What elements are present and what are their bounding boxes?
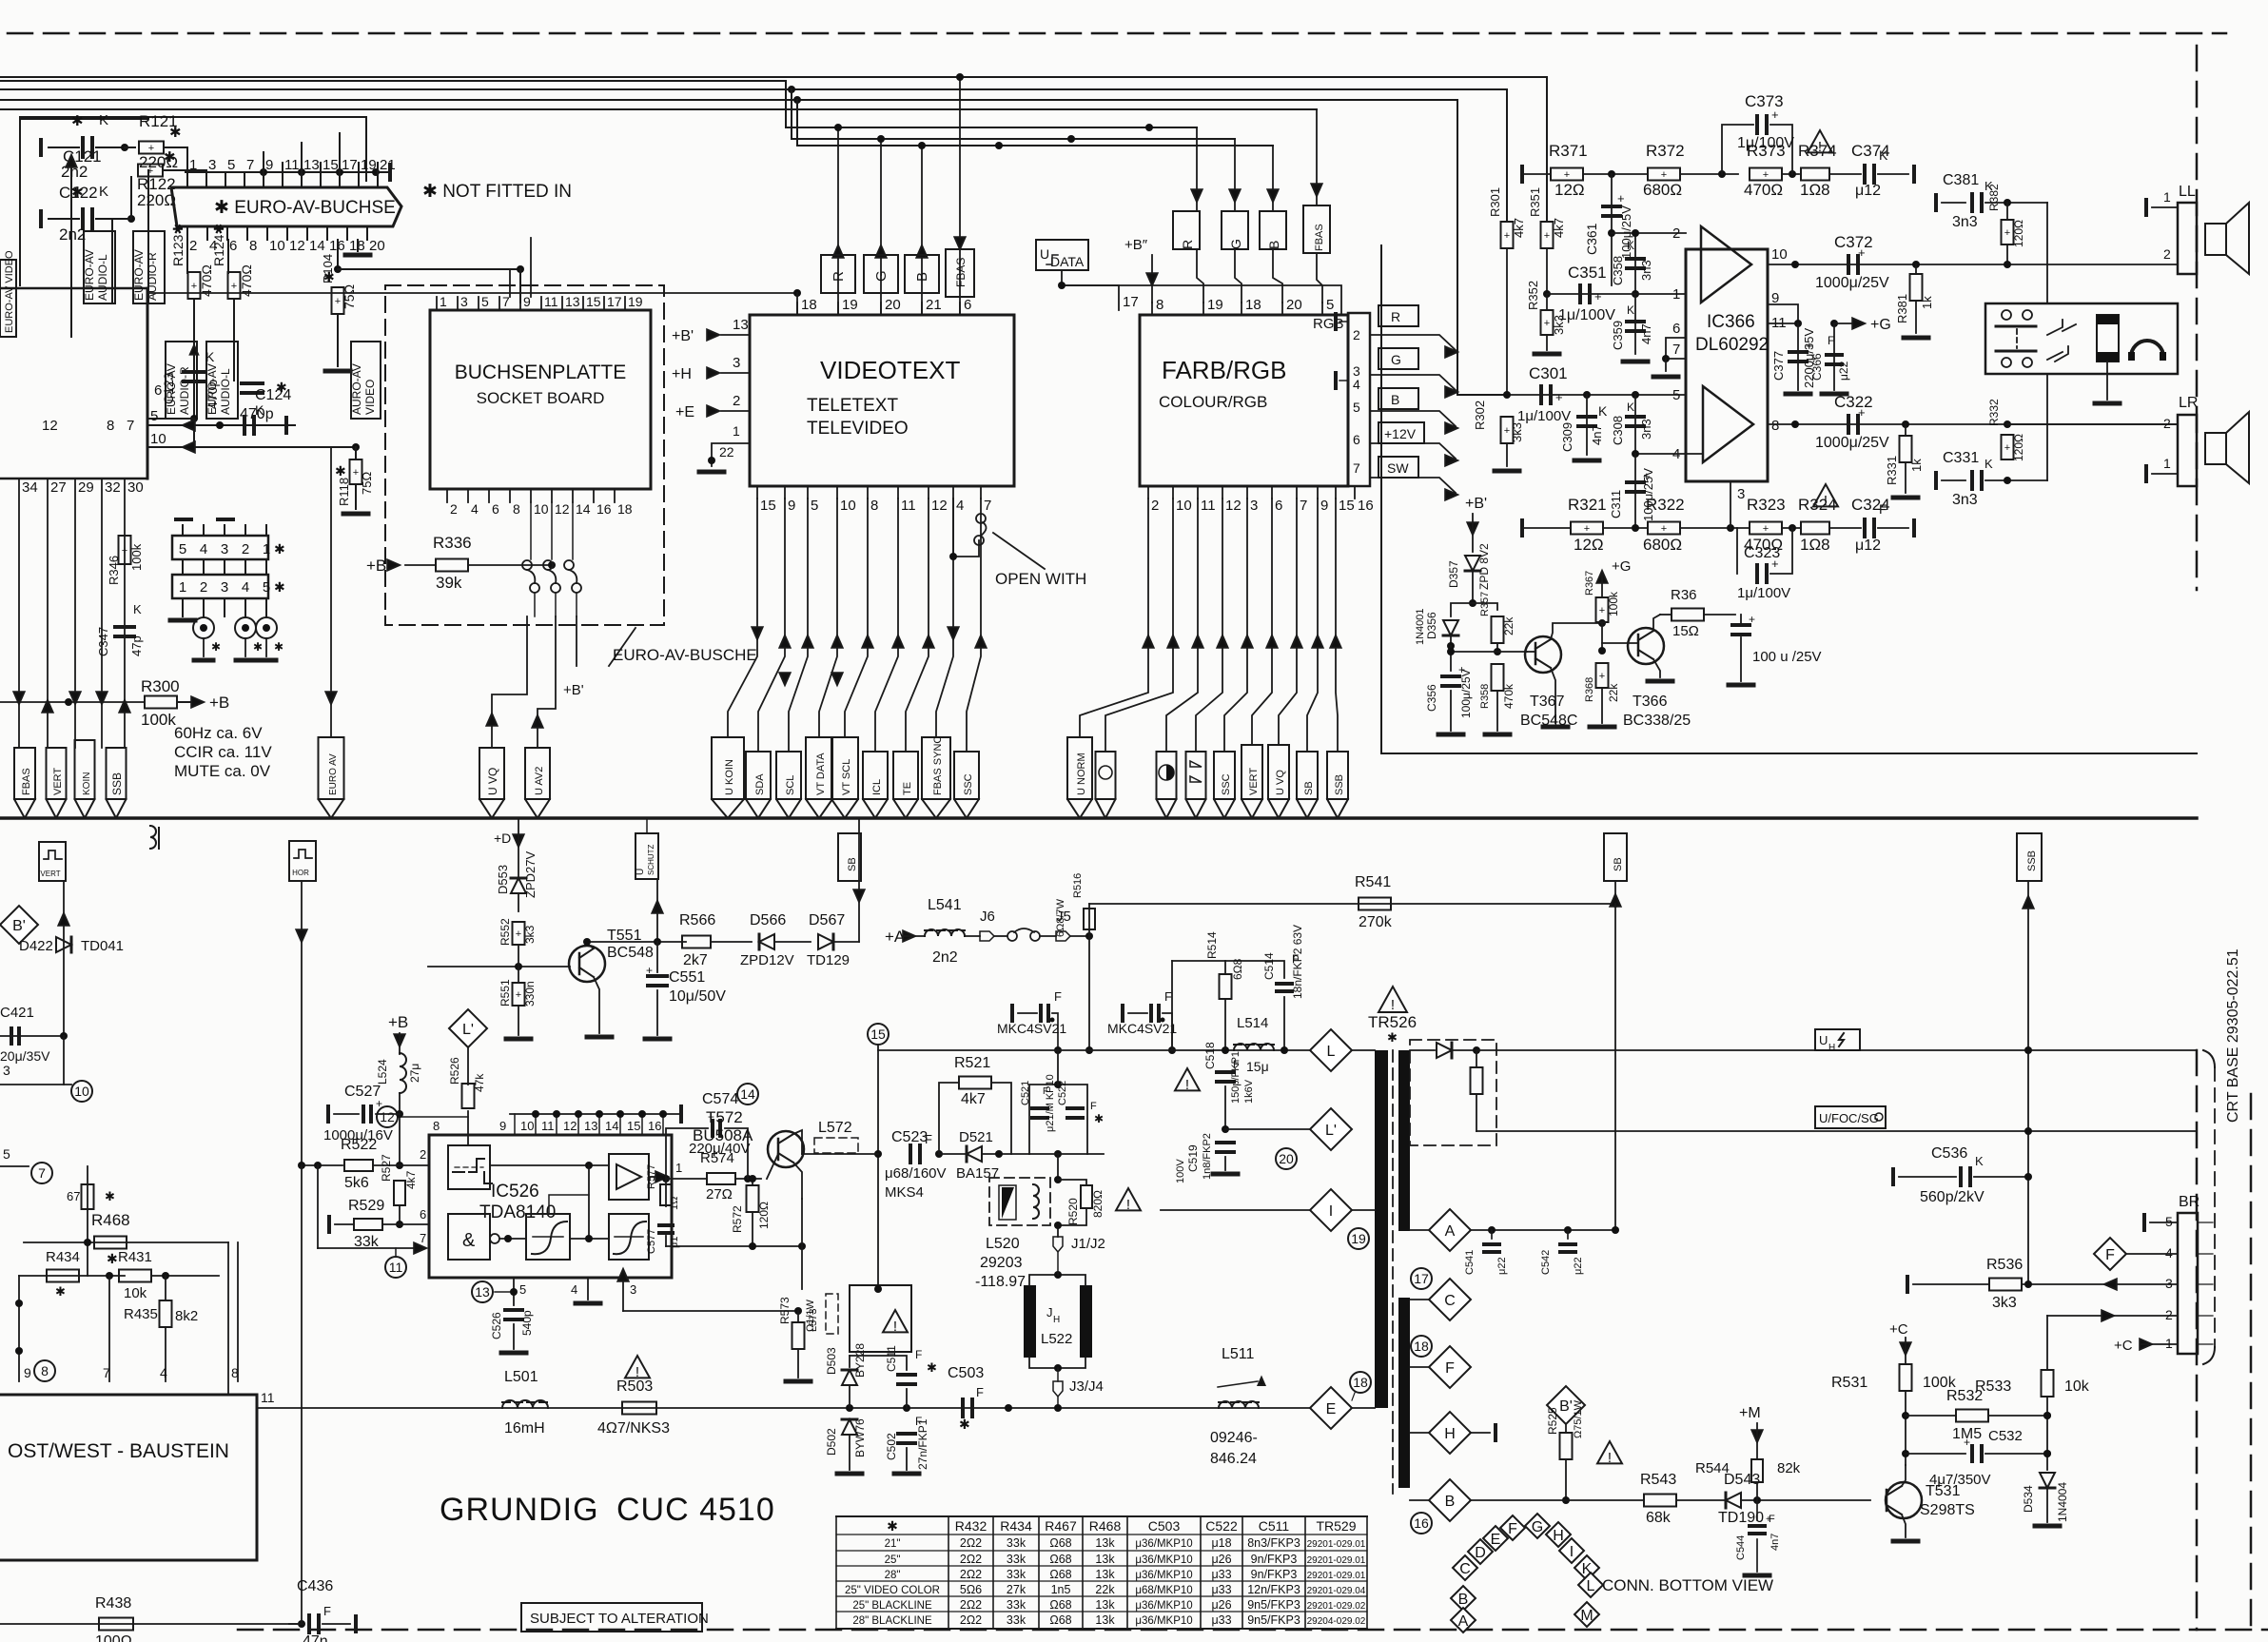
- capacitor C372: [1847, 256, 1850, 273]
- svg-text:DATA: DATA: [1050, 254, 1085, 269]
- svg-text:B: B: [914, 272, 930, 282]
- svg-text:EURO-AV: EURO-AV: [83, 249, 96, 301]
- label SUBJECT TO ALTERATION: [521, 1603, 702, 1632]
- node circle 12: [377, 1106, 398, 1127]
- wire lower block join: [147, 419, 194, 447]
- svg-text:μ26: μ26: [1211, 1598, 1231, 1612]
- capacitor 100u: [1732, 623, 1750, 627]
- svg-text:TELETEXT: TELETEXT: [807, 396, 898, 416]
- svg-text:9n5/FKP3: 9n5/FKP3: [1247, 1598, 1300, 1612]
- node flag FBAS SYNC: [14, 748, 35, 799]
- svg-text:R434: R434: [46, 1249, 80, 1265]
- resistor R124: [227, 240, 229, 273]
- node diamond L: [1310, 1029, 1352, 1071]
- resistor R301: [1501, 222, 1514, 248]
- svg-text:LL: LL: [2179, 184, 2196, 200]
- resistor R368: [1596, 663, 1609, 688]
- wire pin2 line: [1612, 232, 1686, 234]
- wire I line: [1161, 1209, 1310, 1211]
- svg-text:470k: 470k: [1502, 683, 1515, 709]
- svg-text:TELEVIDEO: TELEVIDEO: [807, 419, 909, 439]
- resistor R346: [119, 536, 131, 564]
- resistor R336: [387, 559, 400, 570]
- svg-text:K: K: [1975, 1154, 1984, 1168]
- wire flag riser: [728, 498, 757, 737]
- wire collector row: [587, 941, 686, 943]
- node flag B out: [1378, 388, 1418, 409]
- svg-text:27n/FKP1: 27n/FKP1: [916, 1418, 929, 1470]
- svg-text:2: 2: [1151, 498, 1159, 514]
- frame dashed border bottom: [238, 1629, 2268, 1632]
- svg-text:R531: R531: [1831, 1375, 1867, 1391]
- node flag U AV2: [525, 748, 550, 799]
- capacitor C301: [1539, 386, 1543, 403]
- inductor L520 assembly: [989, 1178, 1050, 1225]
- svg-text:BC338/25: BC338/25: [1623, 713, 1691, 729]
- small box below t572: [850, 1285, 911, 1352]
- sub-block s-curve 1: [526, 1214, 570, 1260]
- svg-text:25" VIDEO COLOR: 25" VIDEO COLOR: [845, 1585, 940, 1596]
- svg-text:27: 27: [50, 479, 67, 496]
- svg-text:FBAS: FBAS: [954, 258, 968, 287]
- sub-block driver triangle: [609, 1154, 649, 1200]
- svg-text:2: 2: [420, 1147, 426, 1162]
- wire top-left: [20, 116, 366, 118]
- resistor R503: [625, 1356, 650, 1378]
- svg-text:R372: R372: [1646, 142, 1685, 160]
- svg-text:100 u /25V: 100 u /25V: [1752, 649, 1822, 665]
- svg-text:1: 1: [675, 1161, 682, 1175]
- svg-text:1: 1: [263, 541, 270, 557]
- wire flag riser: [936, 498, 953, 737]
- svg-text:14: 14: [740, 1086, 755, 1102]
- svg-text:SOCKET BOARD: SOCKET BOARD: [477, 389, 605, 407]
- svg-text:5: 5: [519, 1282, 526, 1297]
- svg-text:13k: 13k: [1095, 1553, 1115, 1566]
- svg-text:F: F: [1828, 334, 1834, 347]
- svg-text:20: 20: [1279, 1151, 1294, 1166]
- svg-text:U: U: [1819, 1033, 1828, 1047]
- svg-text:2: 2: [1353, 327, 1360, 342]
- svg-text:19: 19: [842, 297, 858, 313]
- wire E line left: [257, 1407, 1310, 1409]
- node flag U FOC/SG: [1815, 1106, 1886, 1128]
- svg-text:14: 14: [605, 1119, 618, 1133]
- svg-text:5: 5: [1353, 400, 1360, 415]
- resistor R468: [24, 1241, 228, 1243]
- wire H tap: [1410, 1432, 1429, 1434]
- svg-text:680Ω: 680Ω: [1643, 536, 1682, 554]
- svg-text:D553: D553: [496, 865, 510, 894]
- svg-text:Ω68: Ω68: [1049, 1613, 1071, 1627]
- svg-text:T572: T572: [706, 1108, 743, 1126]
- node flag sun icon: [1096, 752, 1116, 799]
- svg-text:R36: R36: [1671, 587, 1697, 603]
- svg-text:1000μ/25V: 1000μ/25V: [1815, 275, 1889, 291]
- resistor R104: [337, 240, 339, 269]
- svg-text:TR526: TR526: [1368, 1013, 1417, 1031]
- svg-text:2Ω2: 2Ω2: [960, 1536, 982, 1550]
- pins videotext top: [796, 303, 798, 315]
- svg-text:+E: +E: [675, 404, 694, 420]
- svg-text:U: U: [1040, 246, 1049, 262]
- node flag SDA: [746, 752, 771, 799]
- svg-text:15: 15: [1339, 498, 1355, 514]
- svg-text:11: 11: [901, 498, 916, 514]
- wire r541 line: [1089, 903, 1615, 905]
- svg-text:μ33: μ33: [1211, 1583, 1231, 1596]
- svg-text:R529: R529: [348, 1198, 384, 1214]
- svg-text:B: B: [1458, 1592, 1469, 1608]
- resistor R533: [2046, 1316, 2048, 1370]
- svg-text:L511: L511: [1222, 1346, 1255, 1362]
- svg-text:R432: R432: [955, 1518, 987, 1534]
- svg-text:OPEN WITH: OPEN WITH: [995, 570, 1086, 588]
- node flag FBAS SYNC: [922, 737, 950, 799]
- svg-text:SUBJECT TO ALTERATION: SUBJECT TO ALTERATION: [530, 1611, 709, 1627]
- capacitor C511: [850, 1356, 907, 1370]
- svg-text:R382: R382: [1987, 184, 2001, 211]
- dashed box socket board: [385, 285, 664, 625]
- svg-text:K: K: [1627, 239, 1634, 252]
- svg-text:8n3/FKP3: 8n3/FKP3: [1247, 1536, 1300, 1550]
- svg-text:1k: 1k: [1909, 459, 1924, 472]
- diode D543: [1726, 1493, 1741, 1508]
- svg-text:28": 28": [885, 1570, 901, 1581]
- svg-text:!: !: [1185, 1077, 1189, 1093]
- node circle 14: [737, 1084, 758, 1104]
- svg-text:HOR: HOR: [292, 869, 309, 877]
- svg-text:7: 7: [127, 418, 134, 434]
- svg-text:OST/WEST - BAUSTEIN: OST/WEST - BAUSTEIN: [8, 1440, 229, 1462]
- svg-text:220Ω: 220Ω: [137, 191, 176, 209]
- svg-text:C541: C541: [1464, 1250, 1476, 1275]
- svg-text:21: 21: [380, 157, 396, 173]
- node flag TE: [893, 752, 918, 799]
- svg-text:4: 4: [2165, 1245, 2173, 1261]
- svg-text:29201-029.01: 29201-029.01: [1307, 1539, 1366, 1550]
- svg-text:C511: C511: [1259, 1518, 1290, 1534]
- svg-text:19: 19: [1207, 297, 1223, 313]
- svg-text:22k: 22k: [1502, 616, 1515, 635]
- svg-text:60Hz ca. 6V: 60Hz ca. 6V: [174, 724, 263, 742]
- svg-text:C544: C544: [1735, 1535, 1747, 1560]
- headphone plug: [2097, 315, 2119, 362]
- svg-text:R468: R468: [91, 1211, 130, 1229]
- svg-text:19: 19: [1351, 1231, 1366, 1246]
- wire data to pins: [1062, 270, 1119, 310]
- resistor R324: [1801, 522, 1829, 535]
- svg-text:J6: J6: [980, 909, 995, 925]
- svg-text:FBAS: FBAS: [21, 768, 32, 795]
- wire +G arrow: [1834, 323, 1857, 324]
- svg-text:7: 7: [502, 294, 510, 309]
- svg-text:12: 12: [380, 1109, 395, 1124]
- svg-text:5: 5: [1326, 297, 1334, 313]
- svg-text:28" BLACKLINE: 28" BLACKLINE: [852, 1615, 932, 1627]
- node flag U SCHUTZ: [635, 833, 658, 879]
- svg-text:R124✱: R124✱: [211, 224, 226, 266]
- capacitor C377: [1797, 323, 1799, 390]
- svg-text:G: G: [1532, 1519, 1543, 1535]
- resistor R438: [99, 1618, 133, 1631]
- svg-text:4k7: 4k7: [961, 1091, 986, 1107]
- svg-text:I: I: [1570, 1544, 1574, 1560]
- svg-text:μ68/160V: μ68/160V: [885, 1165, 947, 1182]
- svg-text:+C: +C: [2114, 1338, 2133, 1354]
- sub-block s-curve 2: [609, 1214, 649, 1260]
- svg-text:C536: C536: [1931, 1145, 1967, 1162]
- resistor R322: [1648, 522, 1680, 535]
- svg-text:ICL: ICL: [871, 779, 883, 795]
- svg-text:1: 1: [179, 579, 186, 596]
- svg-text:B: B: [1391, 392, 1399, 407]
- wire buchse risers: [509, 269, 511, 297]
- wire pin10 line: [147, 446, 356, 448]
- node flag VERT below: [39, 842, 66, 881]
- svg-text:B': B': [12, 918, 26, 934]
- svg-text:Ω68: Ω68: [1049, 1553, 1071, 1566]
- svg-text:7: 7: [1300, 498, 1307, 514]
- svg-text:R526: R526: [448, 1057, 461, 1085]
- svg-text:5: 5: [263, 579, 270, 596]
- capacitor C361: [1611, 174, 1613, 285]
- svg-text:2Ω2: 2Ω2: [960, 1568, 982, 1581]
- svg-text:+C: +C: [1889, 1321, 1908, 1338]
- svg-text:EURO-AV-BUSCHE: EURO-AV-BUSCHE: [613, 646, 757, 664]
- op-amp U2: [1703, 386, 1753, 462]
- svg-text:29203: 29203: [980, 1255, 1023, 1271]
- svg-text:FBAS: FBAS: [1314, 224, 1325, 251]
- wire bus line 3: [0, 88, 1507, 90]
- capacitor C502: [898, 1432, 915, 1436]
- svg-text:22k: 22k: [1095, 1583, 1115, 1596]
- svg-text:E: E: [1491, 1532, 1501, 1548]
- svg-text:+: +: [191, 281, 197, 292]
- resistor R331: [1902, 420, 1909, 428]
- svg-text:S298TS: S298TS: [1920, 1502, 1975, 1518]
- wire pin3 line: [623, 1310, 798, 1312]
- resistor R566: [682, 936, 711, 948]
- svg-text:12: 12: [563, 1119, 577, 1133]
- node flag FBAS: [946, 249, 974, 297]
- svg-text:1: 1: [189, 157, 197, 173]
- wire bus line 2: [0, 80, 786, 82]
- svg-text:5: 5: [3, 1146, 10, 1162]
- headphone icon: [2131, 341, 2163, 357]
- svg-text:✱: ✱: [1387, 1030, 1398, 1045]
- wire H line right: [1496, 1049, 2197, 1051]
- svg-text:U NORM: U NORM: [1076, 753, 1087, 795]
- svg-text:4k7: 4k7: [1552, 218, 1566, 238]
- svg-text:100k: 100k: [129, 543, 144, 571]
- svg-text:11: 11: [284, 157, 300, 173]
- transformer TR526 secondary bar upper: [1398, 1050, 1410, 1231]
- svg-text:!: !: [1818, 139, 1822, 155]
- switch contacts: [530, 502, 532, 559]
- resistor R521 bridge: [939, 1083, 959, 1154]
- svg-text:VERT: VERT: [1248, 768, 1260, 795]
- node flag B: [905, 255, 939, 293]
- svg-text:SB: SB: [1613, 857, 1624, 871]
- svg-text:2k7: 2k7: [683, 952, 708, 968]
- svg-text:D566: D566: [750, 912, 786, 929]
- node flag SW out: [1378, 457, 1418, 478]
- svg-text:D503: D503: [825, 1347, 838, 1375]
- svg-text:BC548C: BC548C: [1520, 713, 1577, 729]
- svg-text:VT DATA: VT DATA: [815, 753, 827, 795]
- svg-text:20: 20: [885, 297, 901, 313]
- wire base row: [428, 966, 570, 968]
- wire euro-av risers: [263, 152, 264, 163]
- svg-text:K: K: [1879, 147, 1888, 163]
- capacitor C514: [1225, 961, 1284, 978]
- capacitor C381: [1934, 195, 1938, 210]
- svg-text:8: 8: [107, 418, 114, 434]
- capacitor C123: [193, 341, 195, 419]
- block headphone jack: [1985, 303, 2178, 374]
- wire uschutz riser: [656, 879, 658, 942]
- svg-text:K: K: [1627, 303, 1634, 317]
- svg-text:μ22: μ22: [1496, 1257, 1508, 1275]
- svg-text:+: +: [231, 281, 237, 292]
- svg-text:I: I: [1329, 1203, 1333, 1220]
- jumper J5 arrow: [1056, 931, 1070, 941]
- connector 1-2-3-4-5: [172, 575, 268, 598]
- svg-text:U: U: [635, 869, 646, 875]
- resistor R367: [1596, 571, 1607, 583]
- svg-text:100k: 100k: [1607, 591, 1620, 616]
- svg-text:4: 4: [956, 498, 964, 514]
- svg-text:17: 17: [1123, 294, 1139, 310]
- svg-text:✱: ✱: [335, 463, 346, 479]
- svg-text:9: 9: [499, 1119, 506, 1133]
- capacitor C503: [961, 1399, 965, 1417]
- svg-text:13k: 13k: [1095, 1568, 1115, 1581]
- resistor R526: [467, 1047, 469, 1085]
- svg-text:6Ω8/7W: 6Ω8/7W: [1055, 898, 1066, 937]
- wire hor riser lower: [301, 1165, 303, 1624]
- svg-text:R: R: [1391, 309, 1400, 324]
- svg-text:47p: 47p: [129, 635, 144, 656]
- svg-text:27k: 27k: [1007, 1583, 1026, 1596]
- svg-text:29201-029.01: 29201-029.01: [1307, 1555, 1366, 1566]
- svg-text:BR: BR: [2179, 1194, 2200, 1210]
- svg-text:MKS4: MKS4: [885, 1184, 924, 1201]
- svg-text:F: F: [1054, 989, 1062, 1004]
- wire audio section border: [1381, 245, 2197, 753]
- svg-text:K: K: [133, 602, 142, 616]
- svg-text:75Ω: 75Ω: [360, 472, 374, 495]
- pins buchsenplatte bottom: [446, 489, 448, 502]
- svg-text:2n2: 2n2: [59, 225, 86, 244]
- svg-text:33k: 33k: [1007, 1568, 1026, 1581]
- node flag U EURO AV: [319, 737, 344, 799]
- svg-text:+G: +G: [1612, 558, 1631, 575]
- svg-text:100k: 100k: [141, 711, 176, 729]
- svg-text:✱: ✱: [169, 125, 182, 141]
- svg-text:16: 16: [648, 1119, 661, 1133]
- svg-text:18: 18: [801, 297, 817, 313]
- transistor T572: [768, 1131, 804, 1167]
- svg-text:100V: 100V: [1175, 1159, 1186, 1183]
- pins EURO-AV top: [186, 172, 188, 187]
- resistor R382: [2002, 220, 2014, 244]
- svg-text:R527: R527: [380, 1154, 393, 1182]
- connector bottom view diamonds: [1453, 1555, 1477, 1580]
- svg-text:TE: TE: [902, 782, 913, 795]
- svg-text:G: G: [1391, 352, 1401, 367]
- svg-text:R572: R572: [731, 1205, 744, 1233]
- block FARB/RGB: [1140, 315, 1348, 486]
- resistor R514: [1171, 961, 1173, 1050]
- svg-text:2: 2: [2165, 1307, 2173, 1322]
- diode D566: [759, 934, 774, 949]
- capacitor C544: [1756, 1500, 1758, 1520]
- svg-text:2Ω2: 2Ω2: [960, 1553, 982, 1566]
- svg-text:27Ω: 27Ω: [706, 1186, 733, 1202]
- svg-text:SCL: SCL: [785, 775, 796, 795]
- svg-text:✱: ✱: [105, 1189, 115, 1203]
- svg-text:3n3: 3n3: [1639, 419, 1653, 440]
- svg-text:25": 25": [885, 1554, 901, 1566]
- svg-text:F: F: [1164, 989, 1172, 1004]
- left IC block: [20, 119, 147, 285]
- svg-text:R301: R301: [1488, 187, 1502, 217]
- inductor coil below bus: [149, 818, 151, 824]
- svg-text:7: 7: [420, 1231, 426, 1245]
- svg-text:μ26: μ26: [1211, 1553, 1231, 1566]
- svg-text:KOIN: KOIN: [82, 772, 92, 795]
- wire pin4 line: [1635, 453, 1703, 455]
- svg-text:3n3: 3n3: [1952, 214, 1978, 230]
- svg-text:J3/J4: J3/J4: [1069, 1378, 1104, 1395]
- svg-text:C: C: [1444, 1293, 1456, 1309]
- svg-text:D357: D357: [1447, 560, 1460, 588]
- svg-text:25" BLACKLINE: 25" BLACKLINE: [852, 1600, 932, 1612]
- svg-text:33k: 33k: [1007, 1536, 1026, 1550]
- node flag U KOIN: [75, 740, 95, 799]
- node circle 18 tap: [1350, 1372, 1371, 1393]
- node flag SSB right2: [2017, 833, 2042, 881]
- svg-text:3: 3: [221, 579, 228, 596]
- svg-text:C522: C522: [1205, 1518, 1238, 1534]
- svg-text:BUCHSENPLATTE: BUCHSENPLATTE: [455, 362, 626, 383]
- svg-text:CUC 4510: CUC 4510: [616, 1492, 775, 1528]
- svg-text:B': B': [1559, 1398, 1573, 1415]
- svg-text:C574: C574: [702, 1091, 738, 1107]
- wire jack feeds: [2046, 203, 2048, 303]
- block VIDEOTEXT: [750, 315, 1014, 486]
- svg-text:K: K: [1984, 457, 1993, 471]
- svg-text:6: 6: [964, 297, 971, 313]
- svg-text:16: 16: [1358, 498, 1374, 514]
- capacitor C122: [39, 211, 43, 226]
- svg-text:8: 8: [249, 238, 257, 254]
- svg-text:C523: C523: [891, 1129, 928, 1145]
- wire FOC line right: [1476, 1130, 2197, 1132]
- svg-text:AUDIO-L: AUDIO-L: [96, 254, 109, 301]
- svg-text:C372: C372: [1834, 233, 1873, 251]
- svg-text:C358: C358: [1611, 256, 1625, 285]
- svg-text:R: R: [1180, 240, 1195, 249]
- node flag VT SCL: [831, 737, 858, 799]
- capacitor C358: [1634, 233, 1636, 294]
- diode top winding: [1410, 1049, 1435, 1051]
- svg-text:A: A: [1445, 1223, 1456, 1240]
- wire down to L520: [1057, 1154, 1059, 1180]
- svg-text:F: F: [1769, 1514, 1775, 1525]
